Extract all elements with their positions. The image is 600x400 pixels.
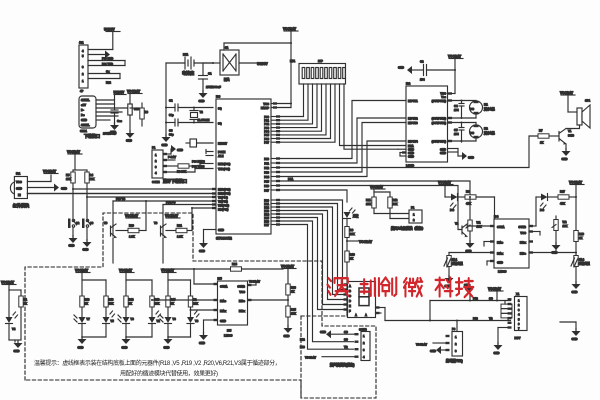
- power flag VCCBAT speaker: [560, 91, 575, 112]
- svg-text:P3: P3: [452, 327, 456, 331]
- resistor R4: [85, 172, 89, 183]
- P1 gnd flag: [167, 145, 183, 154]
- crystal circuit: cap C2a: [165, 99, 213, 118]
- svg-text:INAs: INAs: [220, 299, 227, 303]
- svg-text:R21: R21: [177, 224, 182, 228]
- svg-text:S3: S3: [90, 221, 94, 225]
- X1 resistors column: [501, 301, 512, 321]
- resistor R13: [80, 296, 90, 317]
- IC2 motor driver L293D: [406, 82, 448, 168]
- PSEN ALE stubs: [206, 150, 213, 156]
- amp1 pin stubs: [214, 283, 252, 321]
- svg-text:10K: 10K: [155, 302, 160, 306]
- svg-text:GND: GND: [199, 341, 205, 345]
- svg-text:GND: GND: [552, 251, 558, 255]
- svg-text:PSEN: PSEN: [218, 150, 225, 154]
- gnd group3: [164, 336, 173, 350]
- svg-text:Vss: Vss: [441, 95, 446, 99]
- resistor R23: [286, 284, 297, 306]
- photodiode V2b: [126, 311, 161, 337]
- svg-text:GND: GND: [78, 346, 84, 350]
- svg-text:INBx: INBx: [239, 309, 246, 313]
- wire speaker to collector: [566, 125, 580, 129]
- resistor R21: [166, 207, 193, 239]
- cap Cac: [111, 104, 122, 124]
- svg-text:Y2: Y2: [200, 110, 204, 114]
- svg-text:用配好的循迹模块代替使用，效果更好): 用配好的循迹模块代替使用，效果更好): [120, 370, 218, 378]
- watermark char 深: [327, 278, 348, 296]
- svg-text:D-: D-: [81, 108, 84, 112]
- svg-text:C4: C4: [454, 104, 458, 108]
- power flag VCCBAT mid: [346, 240, 372, 244]
- MCU VCC EA wires to top rail: [271, 42, 292, 109]
- diode D1: [450, 194, 465, 213]
- svg-text:蜂鸣器FMQ: 蜂鸣器FMQ: [446, 358, 463, 363]
- pot W1: [466, 197, 482, 253]
- header JP1 10P: [290, 59, 346, 84]
- svg-text:LM386: LM386: [224, 334, 233, 338]
- svg-text:10K: 10K: [366, 202, 371, 206]
- svg-text:D+: D+: [81, 113, 85, 117]
- photoresistor KL1: [444, 256, 463, 289]
- svg-text:1K: 1K: [291, 290, 294, 294]
- wire P17 to photodiode column: [280, 190, 347, 202]
- wire R22: [88, 78, 120, 80]
- svg-text:VCCBAT: VCCBAT: [359, 240, 372, 244]
- svg-text:震动电机: 震动电机: [483, 107, 495, 111]
- svg-text:10K: 10K: [193, 302, 198, 306]
- svg-text:光敏: 光敏: [352, 214, 359, 218]
- gnd arrow IR1: [27, 184, 67, 192]
- svg-text:R14: R14: [129, 298, 134, 302]
- svg-text:S1: S1: [225, 46, 229, 50]
- wire TXD: [167, 165, 213, 172]
- wire switch top to VCCBAT rail: [224, 43, 291, 50]
- resistor R15: [166, 296, 176, 317]
- gnd group1: [78, 336, 87, 350]
- svg-text:P13: P13: [473, 317, 478, 321]
- svg-text:VCCBAT: VCCBAT: [283, 27, 296, 31]
- wire P12 to speaker driver: [280, 136, 538, 168]
- svg-text:16V/100uF: 16V/100uF: [103, 132, 117, 136]
- svg-text:INPUT3: INPUT3: [408, 121, 418, 125]
- 7-seg top pin marks: [350, 283, 375, 286]
- IC2 left gnd stubs: [398, 149, 406, 156]
- svg-text:GND: GND: [218, 228, 224, 232]
- svg-text:GND: GND: [199, 249, 205, 253]
- svg-text:下载接口: 下载接口: [84, 133, 100, 139]
- svg-text:4P: 4P: [80, 89, 83, 93]
- resistor R11: [366, 197, 409, 214]
- gnd arrow J1 pin2: [88, 54, 105, 56]
- svg-text:KF1: KF1: [290, 59, 296, 63]
- svg-text:W1: W1: [477, 221, 482, 225]
- svg-text:P31 TXD3: P31 TXD3: [192, 165, 205, 169]
- power flag VCCBAT right: [569, 181, 584, 199]
- buttons risers from R5 R4: [73, 183, 87, 219]
- ultrasonic P13 label: [300, 345, 348, 349]
- 7-seg fan wires from P2: [280, 200, 345, 310]
- resistor R10: [345, 251, 355, 316]
- IR diode pair left: [6, 312, 22, 340]
- svg-text:P12: P12: [473, 297, 478, 301]
- svg-text:VCCBAT: VCCBAT: [281, 265, 294, 269]
- wire OUTB riser to diode row: [529, 197, 541, 226]
- svg-text:OUTB: OUTB: [518, 225, 526, 229]
- svg-text:VCCBAT: VCCBAT: [448, 55, 461, 59]
- svg-text:P30 RXD3: P30 RXD3: [192, 160, 205, 164]
- power flag VCCBAT rail right: [281, 265, 296, 285]
- svg-text:1K: 1K: [129, 302, 132, 306]
- watermark 深圳创微科技 (drawn strokes): [327, 278, 473, 297]
- power flag VCCBAT top: [283, 27, 298, 43]
- svg-text:P04: P04: [264, 130, 269, 134]
- svg-text:V3: V3: [195, 319, 199, 323]
- svg-text:KL2: KL2: [579, 258, 585, 262]
- svg-text:104: 104: [454, 108, 459, 112]
- ultrasonic module connector CN2: [329, 328, 370, 368]
- connector X1 DIP7: [508, 292, 528, 340]
- wire P26 to ultrasonic pin2: [280, 221, 354, 342]
- svg-text:GND: GND: [408, 148, 414, 152]
- svg-text:M2: M2: [484, 127, 488, 131]
- pot W2: [552, 216, 568, 255]
- svg-text:L293D: L293D: [406, 164, 414, 168]
- gnd below S2: [69, 228, 78, 248]
- svg-text:R11: R11: [366, 198, 371, 202]
- left IR pair column: [1, 281, 21, 318]
- wire P15 to comparator left: [280, 177, 470, 197]
- svg-text:VCC: VCC: [16, 180, 22, 184]
- battery BT1: [166, 53, 213, 76]
- 7-seg display DS1: [344, 282, 376, 318]
- svg-text:R17: R17: [560, 190, 565, 194]
- svg-text:C2: C2: [169, 99, 173, 103]
- svg-text:开关: 开关: [224, 78, 230, 82]
- svg-text:R16: R16: [579, 232, 584, 236]
- svg-text:10K: 10K: [90, 177, 95, 181]
- svg-text:GND: GND: [320, 330, 326, 334]
- gnd below Cac: [110, 122, 119, 130]
- gnd below S3: [83, 228, 92, 252]
- MCU P2 pin stubs: [271, 199, 280, 226]
- P1x pin stubs on MCU right: [271, 157, 280, 191]
- photodiode V5: [82, 311, 115, 337]
- crystal Y1: [190, 107, 210, 124]
- svg-text:GND: GND: [562, 157, 568, 161]
- svg-text:C1: C1: [208, 72, 212, 76]
- svg-text:DG: DG: [540, 208, 544, 212]
- svg-text:P01: P01: [264, 119, 269, 123]
- connector P1 module box: [391, 206, 425, 231]
- svg-text:VCC: VCC: [440, 92, 446, 96]
- resistor R9: [345, 227, 355, 252]
- svg-text:10K: 10K: [66, 177, 71, 181]
- svg-text:P1A: P1A: [288, 177, 293, 181]
- svg-text:30p: 30p: [169, 133, 174, 137]
- svg-text:P05: P05: [264, 133, 269, 137]
- ultrasonic P12 label: [300, 338, 348, 342]
- svg-text:T1(P35): T1(P35): [218, 200, 228, 204]
- tracking group 2: flag: [119, 269, 152, 297]
- svg-text:R13: R13: [85, 298, 90, 302]
- svg-text:红外模块: 红外模块: [13, 202, 29, 208]
- diode D2: [540, 194, 558, 213]
- svg-text:IC5: IC5: [227, 329, 232, 333]
- svg-text:P26: P26: [264, 220, 269, 224]
- svg-text:SH1EL: SH1EL: [81, 123, 90, 127]
- svg-text:GND: GND: [126, 139, 132, 143]
- svg-text:M1: M1: [484, 103, 488, 107]
- svg-text:P-BAT: P-BAT: [168, 155, 176, 159]
- dashed outline main: [25, 213, 376, 398]
- svg-text:GND: GND: [408, 155, 414, 159]
- download port wires: [96, 100, 130, 120]
- wire P16 to transistor V2: [280, 186, 462, 230]
- svg-text:P17: P17: [264, 189, 269, 193]
- svg-text:P13: P13: [264, 171, 269, 175]
- watermark char 科: [436, 278, 453, 297]
- svg-text:P02: P02: [264, 122, 269, 126]
- svg-text:R9: R9: [350, 228, 354, 232]
- ultrasonic VCCBAT wire: [305, 356, 355, 360]
- gnd bottom-right corner: [560, 322, 581, 341]
- svg-text:KL1: KL1: [452, 258, 458, 262]
- speaker driver resistor R7: [538, 129, 559, 145]
- svg-text:GND: GND: [199, 99, 205, 103]
- svg-text:10K: 10K: [393, 202, 398, 206]
- header to P0 staircase wires: [280, 84, 335, 142]
- svg-text:P34 PC: P34 PC: [166, 201, 175, 205]
- svg-text:V6: V6: [104, 221, 108, 225]
- svg-text:P06: P06: [264, 137, 269, 141]
- svg-text:D: D: [349, 299, 351, 303]
- svg-text:INAs: INAs: [497, 241, 504, 245]
- wire INAx to KL1: [449, 253, 494, 256]
- svg-text:R24: R24: [232, 262, 237, 266]
- svg-text:RD(P37): RD(P37): [218, 208, 229, 212]
- svg-text:104: 104: [454, 132, 459, 136]
- svg-text:INAx: INAx: [497, 252, 504, 256]
- wire amp1 OUTB to flag: [248, 280, 261, 286]
- wire OUTPUT1 to M1: [448, 99, 477, 101]
- svg-text:VCCBAT: VCCBAT: [249, 280, 260, 284]
- wire INBs to KL2 column: [529, 252, 576, 254]
- svg-text:VCCBAT: VCCBAT: [416, 343, 427, 347]
- wire battery left rail down: [165, 63, 167, 136]
- switch S1: [213, 46, 239, 82]
- svg-text:IC3: IC3: [216, 95, 221, 99]
- bluetooth connector P1: [152, 146, 187, 185]
- svg-text:P00: P00: [264, 115, 269, 119]
- svg-text:GND: GND: [69, 244, 75, 248]
- motor M2: [470, 125, 496, 139]
- connector P2 motor module: [370, 185, 390, 197]
- svg-text:VCCBAT: VCCBAT: [127, 90, 140, 94]
- svg-text:INBs: INBs: [239, 299, 246, 303]
- svg-text:TB: TB: [489, 317, 493, 321]
- svg-text:EA/VP: EA/VP: [261, 106, 269, 110]
- svg-text:VCCBAT: VCCBAT: [560, 91, 573, 95]
- svg-text:光敏电阻: 光敏电阻: [451, 262, 463, 266]
- rail VCCBAT with R24: [162, 262, 283, 271]
- svg-text:10K: 10K: [109, 302, 114, 306]
- watermark char 创: [381, 278, 396, 296]
- MCU P0 pin stubs: [271, 115, 280, 143]
- gnd below C1: [199, 90, 208, 98]
- svg-text:R25: R25: [291, 308, 296, 312]
- svg-text:Cx: Cx: [106, 70, 110, 74]
- ultrasonic gnd wire: [320, 330, 355, 338]
- svg-text:GND: GND: [572, 290, 578, 294]
- power flag VCCBAT X1: [488, 287, 503, 302]
- svg-text:V2: V2: [157, 319, 161, 323]
- tracking group 1: flag: [75, 269, 106, 297]
- svg-text:P21: P21: [264, 202, 269, 206]
- svg-text:R10: R10: [350, 253, 355, 257]
- svg-text:GND: GND: [440, 151, 446, 155]
- svg-text:SC: SC: [489, 297, 493, 301]
- svg-text:Cac: Cac: [117, 119, 122, 123]
- gnd flag top bottom-right: [464, 283, 475, 302]
- gnd below C6: [126, 130, 135, 138]
- svg-text:熄灭A电机模块（蓝色）: 熄灭A电机模块（蓝色）: [391, 226, 425, 231]
- svg-text:V5: V5: [111, 319, 115, 323]
- svg-text:OUTB: OUTB: [237, 285, 245, 289]
- power flag VCCBAT col B: [127, 90, 142, 105]
- svg-text:超声波模块(蓝色): 超声波模块(蓝色): [329, 362, 354, 367]
- svg-text:1K: 1K: [579, 236, 582, 240]
- svg-text:GND: GND: [220, 319, 226, 323]
- svg-text:GND: GND: [572, 337, 578, 341]
- svg-text:1.8K: 1.8K: [129, 235, 135, 239]
- svg-text:DC: DC: [470, 107, 474, 111]
- svg-text:GND: GND: [61, 187, 67, 191]
- svg-text:ALE: ALE: [218, 154, 224, 158]
- svg-text:震动电机: 震动电机: [483, 131, 495, 135]
- svg-text:E: E: [349, 304, 351, 308]
- svg-text:VCCBAT: VCCBAT: [370, 185, 383, 189]
- dashed sub-box ultrasonic: [301, 316, 376, 398]
- svg-text:SH5EL: SH5EL: [81, 98, 90, 102]
- download port CN1: [79, 96, 100, 139]
- svg-text:P25: P25: [264, 216, 269, 220]
- gnd group2: [122, 336, 131, 350]
- MCU U1 STC89C52: [216, 95, 271, 241]
- svg-text:GND: GND: [14, 349, 20, 353]
- svg-text:GND: GND: [440, 148, 446, 152]
- svg-text:R23: R23: [291, 286, 296, 290]
- svg-text:GND: GND: [177, 148, 183, 152]
- svg-text:B: B: [349, 289, 351, 293]
- wire INAs from group2: [152, 299, 218, 301]
- svg-text:RXD(P30): RXD(P30): [218, 162, 230, 166]
- cap C4: [454, 100, 464, 115]
- power flag VCCBAT left: [67, 150, 82, 170]
- power flag USB5V: [104, 28, 120, 50]
- svg-text:10K: 10K: [350, 232, 355, 236]
- svg-text:V1: V1: [568, 129, 572, 133]
- wire IR1 IN long to MCU: [27, 193, 213, 195]
- svg-text:USB5V: USB5V: [114, 91, 126, 95]
- long wire P12 SC to X1: [430, 297, 511, 301]
- resistor R22b: [188, 296, 198, 317]
- power flag USB5V 2: [114, 91, 127, 105]
- svg-text:1K: 1K: [85, 302, 88, 306]
- svg-text:GND: GND: [497, 261, 503, 265]
- svg-text:T0(P34): T0(P34): [218, 196, 228, 200]
- svg-text:P31 TXD: P31 TXD: [102, 62, 113, 66]
- wire P14 to INPUT4: [280, 141, 406, 177]
- svg-text:3Q: 3Q: [218, 107, 222, 111]
- svg-text:C3: C3: [169, 129, 173, 133]
- riser to OUTA amp1: [194, 269, 218, 284]
- svg-text:LM386: LM386: [498, 270, 507, 274]
- svg-text:1K: 1K: [540, 141, 543, 145]
- svg-text:GND: GND: [468, 156, 474, 160]
- photoresistor KL2: [571, 256, 590, 295]
- svg-text:(OUTPUT3): (OUTPUT3): [432, 121, 446, 125]
- svg-text:W2: W2: [563, 220, 568, 224]
- wire amp1 INBs to divider: [248, 299, 290, 301]
- wire amp1 gnd: [199, 320, 218, 345]
- wire J1 pin1 to USB5V: [88, 49, 113, 51]
- svg-text:光敏电阻: 光敏电阻: [578, 262, 590, 266]
- svg-text:VCCBAT: VCCBAT: [1, 281, 14, 285]
- svg-text:USB5V: USB5V: [257, 62, 269, 66]
- svg-text:X1: X1: [516, 292, 520, 296]
- svg-text:INPUT2: INPUT2: [408, 117, 418, 121]
- svg-text:(OUTPUT1): (OUTPUT1): [432, 99, 446, 103]
- svg-text:P1: P1: [152, 146, 156, 150]
- svg-text:VCCBAT: VCCBAT: [67, 150, 80, 154]
- svg-text:10K: 10K: [291, 312, 296, 316]
- svg-text:S2: S2: [76, 221, 80, 225]
- IC2 right gnd: [448, 149, 475, 161]
- svg-text:蓝牙下载接口: 蓝牙下载接口: [163, 178, 187, 184]
- wire INAs stub: [484, 242, 494, 247]
- photodiode V3b: [168, 311, 199, 337]
- svg-text:RESET: RESET: [218, 142, 227, 146]
- svg-text:1K: 1K: [24, 302, 27, 306]
- resistor R19: [150, 296, 160, 317]
- svg-text:16V/1000uF: 16V/1000uF: [206, 85, 221, 89]
- svg-text:P20: P20: [264, 199, 269, 203]
- IR LED V9: [160, 315, 176, 338]
- watermark char 微: [404, 278, 422, 296]
- svg-text:ENA: ENA: [408, 144, 414, 148]
- svg-text:V9: V9: [173, 317, 177, 321]
- svg-text:P11: P11: [264, 162, 269, 166]
- resistor R17: [558, 190, 576, 206]
- svg-text:V3: V3: [154, 221, 158, 225]
- svg-text:P23: P23: [264, 209, 269, 213]
- svg-text:DC: DC: [470, 131, 474, 135]
- wire P11 to INPUT2: [280, 118, 406, 163]
- svg-text:GND: GND: [122, 346, 128, 350]
- svg-text:TXD(P31): TXD(P31): [218, 167, 230, 171]
- resistor R12: [388, 197, 409, 219]
- svg-text:INAx: INAx: [220, 309, 227, 313]
- P1 pin stubs: [163, 153, 167, 173]
- svg-text:A: A: [365, 313, 367, 317]
- tracking transistor V6: [104, 201, 116, 263]
- resistor R5: [71, 172, 75, 183]
- svg-text:J01: J01: [79, 41, 84, 45]
- svg-text:GND: GND: [164, 346, 170, 350]
- cap C2b with gnd: [398, 60, 456, 82]
- svg-text:温馨提示：虚线框表示装在结构底板上面的元器件(R18 ,V5: 温馨提示：虚线框表示装在结构底板上面的元器件(R18 ,V5 ,R19 ,V2 …: [34, 359, 280, 367]
